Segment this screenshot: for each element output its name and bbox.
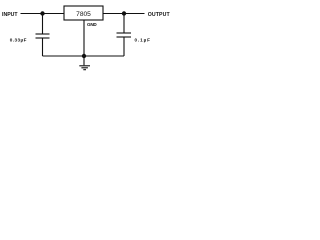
svg-text:INPUT: INPUT (2, 12, 18, 18)
svg-text:GND: GND (87, 22, 97, 27)
svg-text:0.1µF: 0.1µF (135, 38, 151, 43)
svg-text:0.33µF: 0.33µF (10, 38, 27, 43)
svg-text:OUTPUT: OUTPUT (148, 12, 171, 18)
svg-text:7805: 7805 (76, 11, 91, 18)
